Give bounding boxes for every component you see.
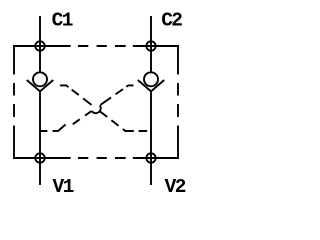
pilot line B crossing hop arc xyxy=(92,105,101,113)
check valve CV2 seat xyxy=(138,80,164,91)
enclosure box right edge (dashed) xyxy=(177,45,179,159)
port C2 circle xyxy=(146,41,155,50)
enclosure box top edge (dashed) xyxy=(14,45,178,47)
svg-text:C1: C1 xyxy=(52,9,73,31)
enclosure box left edge (dashed) xyxy=(13,45,15,159)
check valve CV1 ball xyxy=(33,72,47,86)
wire C1 vertical line xyxy=(39,16,41,72)
svg-text:V2: V2 xyxy=(165,176,186,198)
wire V1 vertical line xyxy=(39,91,41,185)
wire V2 vertical line xyxy=(150,91,152,185)
pilot line A (left valve to right line, dashed) xyxy=(60,85,147,131)
svg-text:V1: V1 xyxy=(53,176,74,198)
svg-text:C2: C2 xyxy=(161,9,182,31)
port C1 circle xyxy=(35,41,44,50)
check valve CV1 seat xyxy=(27,80,53,91)
pilot line B (right valve to left line, dashed) xyxy=(40,85,134,131)
port V1 circle xyxy=(35,153,44,162)
wire C2 vertical line xyxy=(150,16,152,72)
enclosure box bottom edge (dashed) xyxy=(14,157,178,159)
port V2 circle xyxy=(146,153,155,162)
check valve CV2 ball xyxy=(144,72,158,86)
